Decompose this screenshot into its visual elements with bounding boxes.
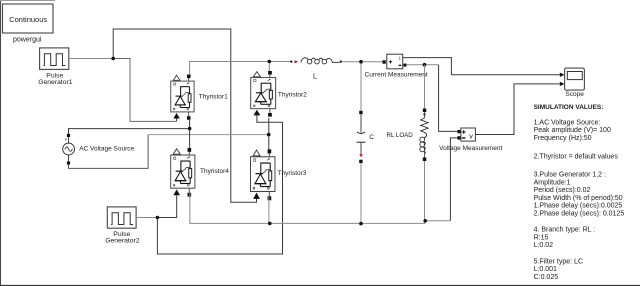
node B right leg junction: [267, 133, 271, 137]
thyristor Thyristor3: [251, 149, 275, 200]
svg-text:Thyristor2: Thyristor2: [278, 92, 307, 99]
pulse generator PG1: [40, 48, 69, 70]
wire PG2 branch loop to T2 gate: [157, 115, 282, 254]
node top rail junction: [268, 60, 272, 64]
wire AC+ to left leg node: [69, 129, 190, 134]
scope block: [560, 68, 585, 90]
current measurement CM: [382, 54, 406, 69]
wire T1 bottom to T4 top: [189, 120, 191, 152]
svg-text:1.AC Voltage Source:: 1.AC Voltage Source:: [534, 119, 601, 126]
node PG2 junction: [156, 216, 160, 220]
thyristor Thyristor4: [171, 148, 195, 197]
wire PG2 output to junction: [136, 217, 157, 219]
svg-text:Continuous: Continuous: [9, 15, 47, 24]
thyristor Thyristor2: [251, 71, 276, 117]
svg-text:5.Filter type: LC: 5.Filter type: LC: [534, 258, 583, 265]
svg-text:Voltage Measurement: Voltage Measurement: [439, 145, 502, 152]
wire top DC rail: [190, 62, 291, 75]
wire to VM plus: [439, 65, 458, 132]
svg-text:2.Thyristor = default values: 2.Thyristor = default values: [534, 154, 619, 161]
svg-text:Thyristor3: Thyristor3: [278, 170, 307, 177]
wire PG1 branch to T1 gate: [113, 59, 176, 122]
node rail T3 junction: [268, 222, 272, 226]
svg-text:L:0.001: L:0.001: [534, 266, 557, 273]
capacitor C branch: [357, 111, 366, 224]
svg-text:Period (secs):0.02: Period (secs):0.02: [534, 187, 591, 194]
svg-text:C: C: [369, 134, 374, 141]
wire CM signal to scope in1: [403, 58, 560, 75]
node rail C junction: [359, 222, 363, 226]
frame left edge: [0, 0, 2, 286]
svg-text:i: i: [399, 56, 400, 62]
wire T3 bottom to rail: [268, 197, 270, 224]
wire CM out to load node: [406, 64, 438, 66]
wire bottom rail: [190, 193, 451, 224]
wire L to CM: [342, 61, 383, 63]
powergui block U_pg: [3, 4, 54, 33]
node rail load junction: [423, 219, 427, 223]
svg-text:Generator1: Generator1: [38, 79, 73, 86]
svg-text:3.Pulse Generator 1,2 :: 3.Pulse Generator 1,2 :: [534, 172, 606, 179]
svg-text:4. Branch type: RL :: 4. Branch type: RL :: [534, 227, 596, 234]
wire VM signal to scope in2: [475, 84, 559, 135]
wire T2 bottom to T3 top: [268, 118, 270, 151]
inductor L filter: [290, 58, 342, 64]
pulse generator PG2: [107, 207, 136, 228]
simulation values text: [534, 104, 625, 281]
wire AC- to right leg node: [148, 134, 269, 136]
svg-text:Peak amplitude (V)= 100: Peak amplitude (V)= 100: [534, 127, 611, 134]
svg-text:RL LOAD: RL LOAD: [387, 132, 414, 139]
svg-text:L: L: [313, 74, 317, 81]
wire PG2 branch to T4 gate: [157, 196, 176, 218]
frame bottom edge: [0, 284, 640, 286]
wire PG1 output to junction: [69, 58, 113, 60]
svg-text:Pulse Width (% of period):50: Pulse Width (% of period):50: [534, 195, 623, 202]
svg-text:SIMULATION VALUES:: SIMULATION VALUES:: [534, 104, 604, 111]
wire C branch top: [360, 62, 362, 111]
svg-text:AC Voltage Source: AC Voltage Source: [79, 146, 134, 153]
svg-text:2.Phase delay (secs): 0.0125: 2.Phase delay (secs): 0.0125: [534, 211, 625, 218]
wire VM minus to bottom rail: [450, 138, 457, 221]
svg-text:Thyristor4: Thyristor4: [200, 168, 229, 175]
voltage measurement VM: [457, 128, 475, 141]
svg-text:C:0.025: C:0.025: [534, 274, 559, 281]
frame top-left remnant: [0, 0, 55, 2]
svg-text:powergui: powergui: [13, 36, 42, 43]
wire AC- down and around: [69, 135, 149, 169]
svg-text:Thyristor1: Thyristor1: [199, 94, 228, 101]
thyristor Thyristor1: [171, 75, 194, 120]
svg-text:Amplitude:1: Amplitude:1: [534, 179, 571, 186]
AC voltage source V1: [63, 134, 75, 165]
node PG1 junction: [111, 57, 115, 61]
RL load branch: [420, 65, 428, 221]
svg-text:Current Measurement: Current Measurement: [365, 72, 428, 79]
svg-text:Scope: Scope: [565, 91, 584, 98]
node C top junction: [359, 60, 363, 64]
svg-text:1.Phase delay (secs):0.0025: 1.Phase delay (secs):0.0025: [534, 203, 623, 210]
wire T2 top stub: [268, 62, 270, 72]
svg-text:R:15: R:15: [534, 234, 549, 241]
svg-text:v: v: [469, 132, 473, 141]
svg-text:Frequency (Hz):50: Frequency (Hz):50: [534, 135, 592, 142]
wire T1 gate stub: [176, 118, 178, 121]
svg-text:L:0.02: L:0.02: [534, 242, 554, 249]
wire PG1 branch up over to T3 gate: [113, 29, 256, 202]
node A left leg junction: [188, 127, 192, 131]
node load top junction: [423, 63, 427, 67]
svg-text:Generator2: Generator2: [105, 238, 140, 245]
